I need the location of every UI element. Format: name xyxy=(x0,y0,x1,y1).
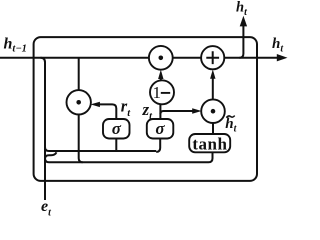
arrowhead into top multiply bottom xyxy=(158,70,163,79)
arrowhead into plus bottom xyxy=(210,69,215,78)
wire sigma r output up-left to left multiply xyxy=(96,104,117,119)
wire left multiply output down to bus2 xyxy=(79,115,83,163)
arrowhead h_t right output xyxy=(277,54,288,61)
wire h_t up branch through box top xyxy=(239,21,243,58)
wire sigma z output up to 1-minus circle xyxy=(159,104,161,119)
svg-text:σ: σ xyxy=(112,119,122,138)
wire trunk elbow to bus1 (sigma input bus) xyxy=(45,147,156,151)
1-minus circle xyxy=(150,80,174,104)
tanh box xyxy=(189,134,230,154)
plus circle xyxy=(201,46,224,69)
multiply circle top (1-z gate) xyxy=(149,46,173,70)
svg-text:1: 1 xyxy=(153,83,162,102)
svg-text:tanh: tanh xyxy=(192,135,227,154)
GRU cell box xyxy=(34,37,257,181)
wire right multiply down to tanh xyxy=(212,123,214,134)
wire sigma r input stub xyxy=(115,139,117,152)
wire trunk second elbow merging into bus1 xyxy=(45,152,57,159)
multiply circle right (z*htilde) xyxy=(201,99,225,123)
arrowhead into left multiply right xyxy=(91,102,100,107)
svg-text:σ: σ xyxy=(155,119,165,138)
wire z branch right to right multiply (arrow) xyxy=(160,111,196,114)
sigma box r gate xyxy=(103,119,130,139)
wire branch down from h line at x=45 (trunk to buses and e_t) xyxy=(41,58,46,200)
wire 1-minus to top multiply (arrow) xyxy=(160,75,162,80)
wire right multiply to plus (arrow) xyxy=(212,75,214,100)
arrowhead h_t top output xyxy=(240,16,247,27)
sigma box z gate xyxy=(147,119,174,139)
wire h branch down to left multiply circle xyxy=(78,58,80,90)
wire sigma z input stub with corner to bus1 xyxy=(156,139,160,152)
wire tanh bottom stub to bus2 xyxy=(209,152,213,162)
wire h(t-1) main horizontal line with output arrow xyxy=(0,57,282,59)
multiply circle left (r*h) xyxy=(67,90,91,114)
arrowhead into right multiply left xyxy=(192,108,201,113)
wire trunk elbow to bus2 (tanh input bus) xyxy=(45,158,209,162)
